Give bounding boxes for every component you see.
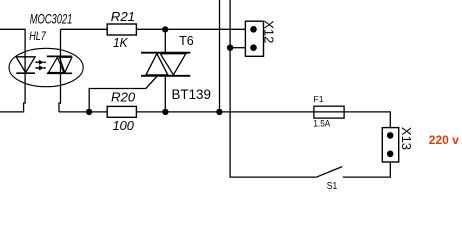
switch S1 blade [316,167,342,178]
resistor R21 [107,24,136,35]
wire: vertical net from top edge to bottom rail [219,0,221,112]
svg-text:BT139: BT139 [172,87,211,102]
svg-text:100: 100 [113,118,135,133]
optocoupler HL7 ellipse [9,48,83,86]
svg-text:1.5A: 1.5A [313,118,330,129]
svg-text:220 v: 220 v [429,133,459,147]
wire: phototriac top lead and step to bottom rail [59,29,61,112]
junction dot X12 stub [227,45,233,51]
wire: triac T6 gate lead [89,77,157,112]
svg-text:S1: S1 [327,180,337,191]
junction dot T6/rail [162,109,168,115]
junction dot vertical/rail [216,109,222,115]
wire: X13 bottom pin to S1 [343,162,391,177]
svg-text:X12: X12 [261,20,276,43]
junction dot gate/rail [86,109,92,115]
svg-text:MOC3021: MOC3021 [30,13,73,27]
LED of optocoupler [16,57,35,73]
svg-text:R21: R21 [111,9,135,24]
svg-text:F1: F1 [314,94,324,104]
wire: triac T6 MT2 lead [164,29,166,53]
svg-text:R20: R20 [111,89,136,104]
light arrow 2 [35,65,45,70]
wire: triac T6 MT1 lead [164,76,166,112]
wire: top rail from phototriac to X12 top pin [61,28,246,30]
wire: bottom rail [59,111,314,113]
connector X12 [245,21,263,56]
svg-text:X13: X13 [399,127,414,150]
wire: LED anode from left edge [0,29,25,112]
fuse F1 internal wire [314,111,345,113]
svg-text:T6: T6 [179,34,194,48]
svg-text:HL7: HL7 [29,30,46,44]
junction dot R21/T6 [162,26,168,32]
wire: fuse F1 to X13 top pin [344,112,390,128]
light arrow 1 [35,60,45,65]
fuse F1 [314,106,344,118]
svg-text:1K: 1K [113,36,128,51]
resistor R20 [107,106,136,117]
connector X13 [382,128,398,162]
phototriac of optocoupler [47,56,72,73]
triac T6 [141,53,190,76]
wire: vertical net from top edge down to S1 [230,0,316,177]
wire: X12 bottom pin stub [230,47,246,49]
